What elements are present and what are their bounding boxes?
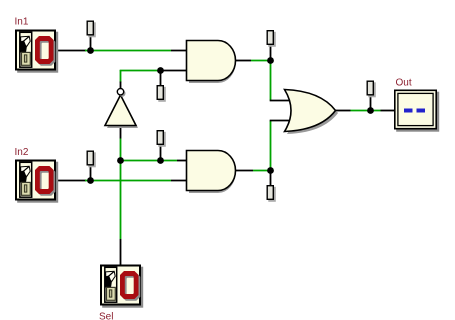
wire probe P5 stub: [270, 46, 272, 61]
wire net A In1 to AND1 input1: [85, 50, 171, 52]
wire net NSEL horizontal to junction J2: [120, 70, 161, 72]
output display Out showing dashes: [395, 90, 439, 131]
wire AND2 output lead: [236, 170, 254, 172]
wire net AND1OUT vertical down to OR input1 corner: [270, 61, 272, 101]
input switch Sel showing digit 0: [101, 266, 143, 308]
junction J6 node AND2OUT: [267, 167, 274, 174]
and-gate U2 (lower AND): [187, 151, 236, 194]
junction J5b node SEL probe tap: [157, 157, 164, 164]
junction J5 node SEL branch: [117, 157, 124, 164]
or-gate U3: [285, 90, 339, 135]
wire Out display input lead: [381, 110, 395, 112]
junction J1 node A: [87, 47, 94, 54]
wire net AND2OUT to junction J6: [253, 170, 271, 172]
wire probe P1 stub: [90, 36, 92, 51]
wire In2 lead: [56, 180, 87, 182]
wire probe P3 stub: [160, 146, 162, 161]
and-gate U1 (upper AND): [187, 41, 236, 84]
wire AND1 input1 lead: [171, 50, 188, 52]
wire AND2 input1 lead: [177, 160, 188, 162]
probe P1: [87, 21, 96, 37]
wire net AND2OUT vertical up to OR input2 corner: [270, 121, 272, 171]
probe P5: [267, 31, 276, 47]
probe P3: [157, 131, 166, 147]
wire AND1 output lead: [236, 60, 252, 62]
svg-text:Sel: Sel: [99, 312, 113, 320]
wire AND2 input2 lead: [171, 180, 188, 182]
wire net NSEL vertical from corner to NOT output bubble: [120, 70, 122, 83]
svg-text:In1: In1: [15, 17, 29, 28]
probe P7: [367, 81, 376, 97]
probe P2: [157, 86, 166, 102]
wire probe P2 stub: [160, 71, 162, 86]
wire probe P6 stub: [270, 171, 272, 186]
wire NOT output lead: [120, 82, 122, 89]
svg-text:Out: Out: [396, 78, 412, 89]
junction J3 node AND1OUT: [267, 57, 274, 64]
wire net SEL row to AND2 input1: [121, 160, 178, 162]
input switch In1 showing digit 0: [16, 31, 58, 73]
junction J2 node NSEL: [157, 67, 164, 74]
junction J4 node B: [87, 177, 94, 184]
wire net B In2 to AND2 input2: [85, 180, 171, 182]
input switch In2 showing digit 0: [16, 161, 58, 203]
wire OR input2 lead: [270, 120, 293, 122]
wire In1 lead: [56, 50, 87, 52]
wire OR output lead: [336, 110, 351, 112]
wire AND1 input2 lead: [161, 70, 189, 72]
wire net AND1OUT to junction J3: [251, 60, 271, 62]
wire NOT input lead: [120, 126, 122, 139]
wire probe P4 stub: [90, 166, 92, 181]
junction J7 node OUT: [367, 107, 374, 114]
wire Sel switch lead: [120, 239, 122, 265]
wire probe P7 stub: [370, 96, 372, 111]
wire net OUT to junction J7: [351, 110, 381, 112]
wire OR input1 lead: [270, 100, 293, 102]
wire net SEL vertical: [120, 139, 122, 240]
inverter U4 (NOT gate, pointing up): [105, 89, 138, 129]
probe P4: [87, 151, 96, 167]
svg-text:In2: In2: [15, 147, 29, 158]
probe P6: [267, 186, 276, 202]
